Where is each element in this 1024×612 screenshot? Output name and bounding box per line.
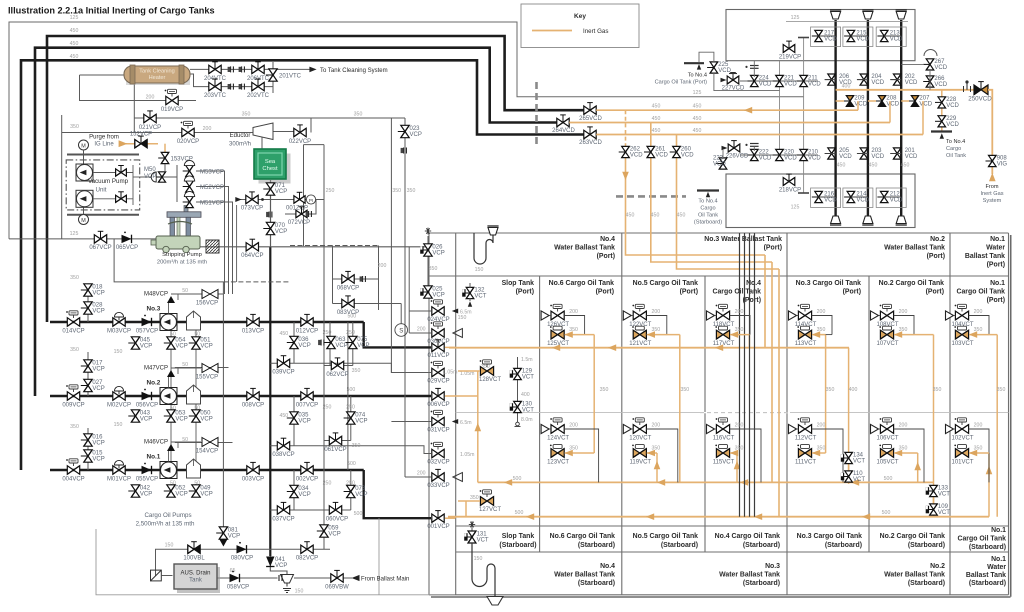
svg-text:350: 350 — [470, 495, 479, 501]
svg-text:VCP: VCP — [140, 417, 152, 423]
valve 213VCD — [880, 30, 888, 36]
svg-text:011VCP: 011VCP — [428, 353, 450, 359]
svg-text:1.05m: 1.05m — [460, 452, 474, 458]
valve 074VCP — [347, 412, 355, 418]
svg-text:064VCP: 064VCP — [241, 253, 263, 259]
wire purge orange — [123, 143, 158, 145]
valve 023VCP — [401, 125, 409, 131]
frame 217VCD — [811, 27, 841, 47]
wire 112VCT frame — [797, 428, 799, 430]
svg-text:350: 350 — [997, 387, 1006, 393]
svg-text:400: 400 — [842, 84, 851, 90]
svg-text:350: 350 — [354, 112, 363, 118]
svg-text:001VCP: 001VCP — [427, 524, 449, 530]
svg-text:(Port): (Port) — [987, 262, 1005, 269]
wire IG orange No.4 stbd stub — [736, 453, 738, 482]
svg-text:VCD: VCD — [890, 198, 903, 204]
valve 014VCP — [67, 318, 73, 326]
vent bottom riser x901 — [896, 216, 906, 224]
svg-text:038VCP: 038VCP — [272, 452, 294, 458]
svg-text:107VCT: 107VCT — [876, 341, 898, 347]
svg-text:VCD: VCD — [890, 37, 903, 43]
wire separator vents — [170, 322, 172, 470]
svg-text:From Ballast Main: From Ballast Main — [361, 576, 409, 582]
svg-text:125: 125 — [70, 15, 79, 21]
valve 020VCP — [182, 128, 188, 136]
valve 120VCT — [633, 425, 640, 434]
valve 266VCD — [926, 76, 934, 82]
svg-text:150: 150 — [458, 315, 467, 321]
svg-text:083VCP: 083VCP — [337, 310, 359, 316]
svg-text:450: 450 — [70, 41, 79, 47]
wire crossover riser x270 — [269, 247, 271, 556]
wire 221/211 row — [740, 80, 818, 82]
svg-text:VCD: VCD — [934, 65, 947, 71]
wire IG orange No.1 riser — [996, 335, 998, 517]
valve 007VCP — [301, 392, 307, 400]
valve 003VCP — [247, 466, 253, 474]
key inert gas sample line — [532, 30, 572, 32]
wire 034VCP branch — [293, 470, 295, 510]
svg-text:VCT: VCT — [938, 510, 950, 516]
svg-text:(Port): (Port) — [743, 297, 761, 304]
valve 012VCP — [301, 318, 307, 326]
wire manifold riser x835 — [834, 20, 836, 216]
svg-text:M51VCP: M51VCP — [200, 201, 224, 207]
flange pair near drain — [279, 575, 282, 581]
valve 031VCP — [432, 417, 438, 425]
valve 043VCP — [131, 410, 139, 416]
svg-text:VCP: VCP — [175, 344, 187, 350]
svg-text:120VCT: 120VCT — [629, 435, 651, 441]
valve 034VCP — [290, 485, 298, 491]
wire 039VCP to 029VCP — [270, 363, 431, 372]
wire 073 drop — [350, 470, 352, 510]
svg-text:No.3 Cargo Oil Tank: No.3 Cargo Oil Tank — [797, 533, 863, 540]
svg-text:VCP: VCP — [335, 343, 347, 349]
wire 020VCP eductor line — [62, 132, 253, 134]
svg-text:VCP: VCP — [357, 343, 369, 349]
svg-text:No.2 Cargo Oil Tank: No.2 Cargo Oil Tank — [880, 533, 946, 540]
valve 063VCP — [327, 336, 335, 342]
svg-text:No.5 Cargo Oil Tank: No.5 Cargo Oil Tank — [633, 533, 699, 540]
wire 036VCP branch — [293, 322, 295, 363]
wire drop to 021/020 — [133, 101, 135, 133]
svg-text:Water Ballast Tank: Water Ballast Tank — [884, 572, 945, 579]
svg-text:No.1: No.1 — [991, 527, 1006, 534]
svg-text:VCP: VCP — [432, 251, 444, 257]
valve 211VCD — [800, 75, 808, 81]
valve 109VCT — [930, 504, 938, 510]
wire eductor suction from sea chest — [261, 136, 263, 150]
svg-text:No.2: No.2 — [930, 236, 945, 243]
svg-text:200m³/h at 135 mth: 200m³/h at 135 mth — [157, 259, 207, 265]
valve 018VCP — [84, 284, 92, 290]
svg-text:VCD: VCD — [808, 156, 821, 162]
wire 122VCT frame — [631, 315, 633, 317]
sounding pipe S — [395, 324, 408, 337]
wire WB port vent loop — [474, 233, 493, 264]
wire 225 drain — [714, 73, 780, 91]
wire 450 main No.2 (x35) — [35, 48, 557, 396]
valve 035VCP — [290, 412, 298, 418]
svg-text:125: 125 — [70, 231, 79, 237]
wire heater left stub — [80, 74, 125, 76]
svg-text:VCD: VCD — [934, 82, 947, 88]
valve 209VCD — [846, 96, 853, 101]
check valve M46VCP small — [167, 444, 175, 451]
svg-text:VCD: VCD — [871, 80, 884, 86]
svg-text:VCP: VCP — [92, 309, 104, 315]
wire IG orange No.4 stub — [748, 335, 750, 348]
svg-text:VCD: VCD — [854, 102, 867, 108]
svg-text:Unit: Unit — [95, 187, 106, 194]
svg-text:(Port): (Port) — [764, 245, 782, 252]
svg-text:003VCP: 003VCP — [242, 476, 264, 482]
svg-text:350: 350 — [70, 124, 79, 130]
svg-text:M46VCP: M46VCP — [144, 440, 168, 446]
svg-text:6.5m: 6.5m — [460, 420, 472, 426]
valve 105VCT — [880, 449, 887, 458]
svg-text:Inert Gas: Inert Gas — [980, 191, 1003, 197]
svg-text:007VCP: 007VCP — [296, 402, 318, 408]
svg-text:031VCP: 031VCP — [427, 427, 449, 433]
valve 134VCT — [845, 452, 853, 458]
svg-text:450: 450 — [693, 128, 702, 134]
wire 081VCP drop — [222, 282, 224, 545]
wire 018/028 branch — [87, 296, 89, 322]
svg-text:150: 150 — [475, 267, 484, 273]
wire 267 stub — [901, 63, 924, 65]
svg-text:(Starboard): (Starboard) — [499, 542, 536, 549]
svg-text:154VCP: 154VCP — [196, 449, 218, 455]
svg-text:350: 350 — [429, 266, 438, 272]
svg-text:VCP: VCP — [298, 343, 310, 349]
wire 207 from line3 — [922, 101, 924, 135]
svg-text:009VCP: 009VCP — [62, 403, 84, 409]
svg-text:200: 200 — [417, 327, 426, 333]
svg-text:Water Ballast Tank: Water Ballast Tank — [554, 245, 615, 252]
svg-text:128VCT: 128VCT — [479, 377, 501, 383]
valve 212VCD — [880, 191, 888, 197]
svg-text:300m³/h: 300m³/h — [229, 142, 251, 148]
valve 069VBW — [331, 574, 337, 582]
svg-text:350: 350 — [392, 188, 401, 194]
wire 021VCP line to 350 riser — [134, 117, 405, 119]
wire 033VCP row — [405, 476, 431, 478]
wire IG elbow port 787 — [812, 334, 826, 336]
valve 223VCD — [719, 158, 727, 164]
svg-text:450: 450 — [651, 213, 660, 219]
valve 001ZCP — [294, 196, 300, 204]
wire 350 riser left — [61, 115, 63, 239]
frame 212VCD — [876, 188, 906, 208]
svg-text:Inert Gas: Inert Gas — [583, 28, 608, 35]
wire IG bundle No.4 col — [764, 255, 766, 348]
valve 108VCT — [880, 311, 887, 320]
valve 104VCT — [955, 311, 962, 320]
wire 209 from line1 — [857, 101, 859, 110]
svg-text:VCD: VCD — [856, 198, 869, 204]
wire IG elbow stbd 539 — [565, 452, 595, 454]
svg-text:VCT: VCT — [853, 477, 865, 483]
svg-text:226VCD: 226VCD — [726, 154, 749, 160]
svg-text:M47VCP: M47VCP — [144, 366, 168, 372]
svg-text:No.4 Cargo Oil Tank: No.4 Cargo Oil Tank — [715, 533, 781, 540]
svg-text:006VCP: 006VCP — [427, 402, 449, 408]
svg-text:203VTC: 203VTC — [204, 93, 227, 99]
wire inert gas 450 line2 — [569, 122, 890, 124]
frame 214VCD — [843, 188, 873, 208]
svg-text:350: 350 — [352, 443, 361, 449]
wire No.1 discharge to 001VCP — [364, 470, 431, 518]
valve 008VCP — [247, 392, 253, 400]
svg-text:To Tank Cleaning System: To Tank Cleaning System — [320, 68, 388, 74]
svg-text:350: 350 — [70, 424, 79, 430]
check valve M48VCP small — [167, 296, 175, 303]
wire 022VCP riser — [310, 118, 312, 133]
valve 119VCT — [633, 449, 640, 458]
svg-text:450: 450 — [693, 104, 702, 110]
wire x324 riser — [323, 304, 325, 550]
vent bottom riser x835 — [831, 216, 841, 224]
wire 016/015 branch — [87, 428, 89, 470]
svg-text:VCT: VCT — [522, 408, 534, 414]
svg-text:101VCT: 101VCT — [951, 460, 973, 466]
wire vacuum internals — [93, 172, 133, 174]
wire sounding stub — [400, 304, 402, 324]
wire x409 riser — [408, 247, 410, 333]
wire 155VCP row — [175, 367, 229, 369]
wire 266 stub — [929, 70, 931, 90]
svg-text:250: 250 — [326, 188, 335, 194]
svg-text:VCP: VCP — [140, 492, 152, 498]
svg-text:2,500m³/h at 135 mth: 2,500m³/h at 135 mth — [136, 521, 195, 528]
valve 219VCP — [783, 45, 789, 53]
svg-text:450: 450 — [626, 213, 635, 219]
valve 081VCP — [219, 527, 227, 533]
valve 054VCP — [167, 337, 175, 343]
svg-text:029VCP: 029VCP — [427, 378, 449, 384]
wire 019VCP line — [134, 100, 196, 102]
valve 026VCP — [424, 244, 432, 250]
svg-text:Ballast Tank: Ballast Tank — [966, 572, 1006, 579]
svg-text:105VCT: 105VCT — [876, 460, 898, 466]
grid shadow right+bottom — [1010, 235, 1012, 597]
valve 229VCD — [938, 116, 946, 122]
svg-text:VCP: VCP — [144, 174, 156, 180]
valve M51VCP — [186, 196, 194, 202]
svg-text:VCP: VCP — [355, 419, 367, 425]
svg-text:450: 450 — [652, 116, 661, 122]
valve 111VCT — [798, 449, 805, 458]
tank bar To No.4 stbd — [697, 189, 719, 191]
wire IG orange No.5 riser — [679, 335, 681, 483]
valve 070VCP — [266, 222, 274, 228]
svg-text:(Port): (Port) — [680, 289, 698, 296]
svg-text:PI: PI — [309, 198, 313, 203]
svg-text:VCD: VCD — [808, 82, 821, 88]
svg-text:VCP: VCP — [92, 386, 104, 392]
wire 208 from line2 — [889, 101, 891, 123]
tank grid outer border — [429, 233, 1009, 595]
wire stripping pump line — [160, 246, 431, 248]
wire 154VCP row — [175, 442, 233, 444]
svg-text:106VCT: 106VCT — [876, 435, 898, 441]
svg-text:To No.4: To No.4 — [698, 199, 717, 205]
svg-text:Water Ballast Tank: Water Ballast Tank — [554, 572, 615, 579]
svg-text:Cargo Oil Pumps: Cargo Oil Pumps — [144, 512, 191, 519]
svg-text:VCP: VCP — [140, 344, 152, 350]
wire 156VCP row — [175, 293, 224, 295]
svg-text:VCP: VCP — [355, 492, 367, 498]
svg-text:150: 150 — [165, 543, 174, 549]
svg-text:450: 450 — [837, 163, 846, 169]
valve 260VCD — [673, 146, 681, 152]
svg-text:VCD: VCD — [824, 37, 837, 43]
wire No.3 discharge to 011VCP — [364, 322, 431, 347]
svg-text:219VCP: 219VCP — [779, 55, 801, 61]
butterfly valve 156VCP — [178, 293, 201, 295]
svg-text:VCD: VCD — [655, 153, 668, 159]
wire inert gas 450 line3 — [596, 134, 923, 136]
svg-text:032VCP: 032VCP — [427, 459, 449, 465]
svg-text:002VCP: 002VCP — [296, 476, 318, 482]
valve 062VCP — [331, 361, 337, 369]
svg-text:073VCP: 073VCP — [241, 205, 263, 211]
wire IG drop x677 — [677, 135, 780, 270]
wire inert gas 450 line1 — [596, 109, 858, 111]
vent bottom riser x867 — [863, 216, 873, 224]
svg-text:400: 400 — [521, 392, 530, 398]
wire 350 riser x391 — [390, 118, 392, 373]
valve 019VCP — [166, 96, 172, 104]
wire 083VCP row — [333, 303, 402, 305]
wire IG elbow port 705 — [730, 334, 749, 336]
inlet triangle 120VCT — [623, 424, 631, 433]
wire IG drop x626 — [625, 110, 627, 146]
wire to tank cleaning system — [273, 68, 310, 70]
valve 122VCT — [633, 311, 640, 320]
vacuum pump 2 — [76, 190, 93, 207]
svg-text:Water Ballast Tank: Water Ballast Tank — [884, 245, 945, 252]
svg-text:350: 350 — [600, 387, 609, 393]
valve 227VCD — [727, 76, 733, 84]
svg-text:VCP: VCP — [298, 492, 310, 498]
svg-text:350: 350 — [826, 387, 835, 393]
svg-text:VCD: VCD — [856, 37, 869, 43]
square symbol bottom-left — [151, 570, 162, 581]
valve 202VTC — [252, 82, 258, 90]
valve 118VCT — [716, 311, 723, 320]
valve 117VCT — [716, 330, 723, 339]
sea chest — [259, 154, 291, 184]
wire 108VCT frame — [879, 315, 881, 317]
valve 130VCT — [514, 401, 522, 407]
wire heater outlet rows — [190, 68, 273, 70]
valve 264VCD — [557, 118, 563, 126]
wire enclosure bottom — [96, 529, 455, 595]
wire IG orange 133/109 drop — [933, 482, 935, 516]
svg-text:450: 450 — [70, 28, 79, 34]
svg-text:500: 500 — [882, 510, 891, 516]
valve 124VCT — [551, 425, 558, 434]
valve 201VCD — [893, 148, 901, 154]
svg-text:No.4: No.4 — [600, 563, 615, 570]
separator No.1 — [187, 459, 201, 478]
svg-text:150: 150 — [474, 556, 483, 562]
svg-text:VCD: VCD — [946, 103, 959, 109]
frame 215VCD — [843, 27, 873, 47]
wire 127 stub — [458, 500, 480, 502]
valve 215VCD — [847, 30, 855, 36]
inlet triangle 116VCT — [707, 424, 715, 433]
svg-text:VCP: VCP — [92, 291, 104, 297]
valve inside vacuum unit 2 — [116, 195, 121, 202]
valve 132VCT — [466, 287, 474, 293]
valve 033VCP — [432, 473, 438, 481]
valve M03VCP — [113, 318, 119, 326]
svg-text:No.3: No.3 — [146, 306, 160, 313]
valve 058VCP — [230, 574, 240, 582]
svg-text:VCD: VCD — [759, 82, 772, 88]
valve 004VCP — [67, 466, 73, 474]
wire IG elbow port 539 — [565, 334, 595, 336]
wire 102VCT frame — [954, 428, 956, 430]
check valve 057VCP — [142, 318, 152, 326]
strainer on IG main — [966, 83, 968, 90]
wire manifold riser x901 — [900, 20, 902, 216]
svg-text:350: 350 — [352, 368, 361, 374]
svg-text:Cargo Oil Tank: Cargo Oil Tank — [713, 289, 762, 296]
inlet triangle 106VCT — [871, 424, 879, 433]
svg-text:(Starboard): (Starboard) — [825, 542, 862, 549]
wire 114VCT frame — [797, 315, 799, 317]
wire spare drop — [236, 205, 238, 282]
svg-text:013VCP: 013VCP — [242, 328, 264, 334]
valve 226VCD — [728, 144, 734, 152]
svg-text:(Port): (Port) — [843, 289, 861, 296]
svg-text:VCP: VCP — [275, 563, 287, 569]
wire dashdot to 068VCP — [223, 281, 290, 283]
wire 118VCT frame — [715, 315, 717, 317]
svg-text:No.1: No.1 — [990, 236, 1005, 243]
svg-text:155VCP: 155VCP — [196, 375, 218, 381]
wire slop 127 riser — [465, 501, 467, 517]
wire 450 main No.1 (x21) — [21, 60, 584, 470]
valve 041VCP — [266, 557, 274, 567]
wire IG elbow stbd 705 — [730, 452, 737, 454]
valve 218VCP — [783, 178, 789, 186]
wire x379 drop — [378, 518, 380, 595]
svg-text:VCD: VCD — [824, 198, 837, 204]
wire heater drop — [80, 75, 135, 101]
svg-text:VCD: VCD — [630, 153, 643, 159]
wire eductor discharge — [273, 131, 296, 133]
wire 224 stub — [753, 61, 755, 77]
flanges above 224 — [750, 66, 759, 69]
wire square to AUS tank — [161, 575, 172, 577]
motor M bottom — [79, 215, 89, 225]
valve 060VCP — [329, 506, 335, 514]
valve 129VCT — [514, 368, 522, 374]
wire stripping suction 125 — [9, 238, 160, 240]
svg-text:Illustration 2.2.1a Initial In: Illustration 2.2.1a Initial Inerting of … — [8, 6, 215, 16]
valve 152VCP — [135, 140, 141, 148]
wire upper frame — [786, 21, 908, 23]
valve 045VCP — [131, 337, 139, 343]
wire 116VCT frame — [715, 428, 717, 430]
